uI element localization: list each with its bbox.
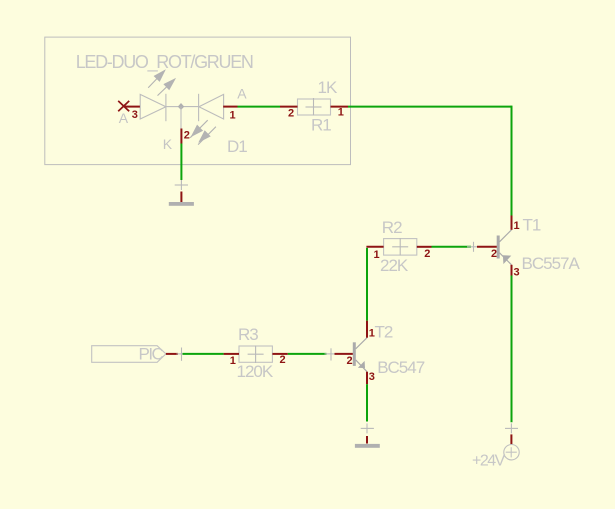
svg-text:BC547: BC547 [377,358,425,377]
svg-text:R2: R2 [382,218,402,237]
D1 pin 1 stub (right) [223,106,237,108]
svg-text:A: A [119,110,129,126]
T2 base pin stub [335,353,353,355]
wire D1 pin2 down to ground [180,144,182,181]
+24V pin stub [510,434,512,444]
T1 emitter diagonal [500,253,512,265]
ground GND2 pin stub [366,436,368,444]
T1 pin 3 stub (bottom) [511,265,513,276]
R3 pin 2 stub [272,353,287,355]
svg-text:+24V: +24V [472,452,506,469]
svg-text:3: 3 [369,371,375,383]
T2 collector diagonal [356,338,367,349]
diode D1 left LED body [140,94,181,121]
R3 pin 1 stub [224,353,239,355]
ground GND2 bar [355,444,380,448]
PIC net flag [92,346,166,363]
diode D1 right LED body [181,94,224,121]
+24V supply symbol circle [504,445,519,460]
svg-text:2: 2 [491,248,497,260]
svg-text:3: 3 [132,109,138,121]
wire T1 emitter down to +24V [511,276,513,423]
svg-text:1: 1 [374,249,380,261]
resistor R3 origin cross [248,346,264,364]
T2 emitter diagonal [356,360,367,372]
diode D1 left LED emission arrows [148,71,175,96]
D1 pin A stub [125,106,140,108]
wire R2 to T1 base [432,246,472,248]
svg-text:BC557A: BC557A [522,254,581,273]
wire down from R2 pin1 corner to T2 collector [366,248,368,321]
frame box around LED-DUO part [45,37,351,165]
R1 pin 1 stub [331,106,349,108]
R2 pin 2 stub [417,246,432,248]
T2 pin 3 stub (bottom) [366,372,368,385]
svg-text:LED-DUO_ROT/GRUEN: LED-DUO_ROT/GRUEN [76,52,253,73]
svg-text:1K: 1K [318,78,338,97]
svg-text:T1: T1 [523,216,541,235]
wire R3 to T2 base [288,353,327,355]
D1 pin A (left) unconnected X marker [118,101,129,111]
T1 pin 1 stub (top) [511,216,513,230]
ground GND1 origin cross [175,180,188,190]
T1 collector diagonal [500,230,512,242]
transistor T2 base bar [353,342,356,366]
T1 base pin stub [477,246,497,248]
resistor R3 body [239,346,272,362]
+24V origin cross [505,423,518,433]
PIC origin cross [177,348,187,361]
resistor R2 origin cross [392,238,408,256]
T2 origin cross [325,348,338,360]
svg-text:1: 1 [514,220,520,232]
diode D1 right LED emission arrows [190,120,216,144]
transistor T1 base bar [497,236,500,259]
svg-text:R3: R3 [238,325,258,344]
svg-text:D1: D1 [227,137,247,156]
svg-text:1: 1 [338,107,344,119]
D1 centre junction / origin [178,103,184,110]
svg-text:K: K [163,136,173,152]
svg-text:2: 2 [424,248,430,260]
D1 common cathode vertical line [180,107,182,129]
wire R1 to top-right corner [348,106,512,108]
wire corner down to T1 emitter [511,106,513,216]
R1 pin 2 stub [280,106,298,108]
svg-text:2: 2 [288,107,294,119]
PIC pin stub [166,353,178,355]
svg-text:22K: 22K [380,256,409,275]
T2 emitter arrow (NPN) [358,361,365,368]
svg-text:2: 2 [280,354,286,366]
ground GND1 pin stub [180,192,182,203]
D1 pin 2 stub (down) [180,129,182,144]
svg-text:3: 3 [514,267,520,279]
svg-text:1: 1 [230,110,236,122]
svg-text:1: 1 [230,355,236,367]
svg-text:2: 2 [347,355,353,367]
T1 emitter arrow (PNP) [503,255,511,264]
+24V symbol plus [506,447,517,457]
wire D1 pin1 to R1 [238,106,281,108]
T1 origin cross [467,242,480,252]
wire PIC to R3 [183,353,224,355]
resistor R1 origin cross [306,98,322,116]
resistor R2 body [384,239,417,256]
svg-text:120K: 120K [237,362,274,381]
svg-text:A: A [237,86,247,102]
ground GND2 origin cross [361,423,374,433]
T2 pin 1 stub (top) [366,321,368,338]
resistor R1 body [298,99,331,115]
svg-text:T2: T2 [375,323,393,342]
wire T2 emitter down to ground [366,384,368,421]
svg-text:R1: R1 [311,116,331,135]
R2 pin 1 stub [366,246,383,248]
svg-text:PIC: PIC [139,345,164,364]
svg-text:2: 2 [184,129,190,141]
ground GND1 bar [169,202,194,206]
